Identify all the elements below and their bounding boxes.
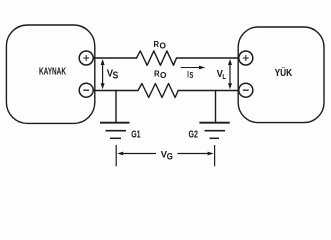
- svg-text:O: O: [160, 41, 167, 51]
- Is current arrow: [181, 66, 206, 70]
- wire top left: [94, 57, 137, 59]
- terminal + right: [239, 51, 253, 65]
- svg-text:YÜK: YÜK: [275, 66, 293, 79]
- terminal + left: [79, 51, 93, 65]
- svg-text:O: O: [160, 70, 167, 80]
- terminal - left: [79, 83, 93, 97]
- wire bottom right: [178, 90, 238, 92]
- resistor RO bottom: [138, 84, 178, 98]
- svg-text:KAYNAK: KAYNAK: [39, 67, 66, 78]
- svg-text:G2: G2: [189, 130, 199, 141]
- VG dimension: [116, 145, 214, 166]
- resistor RO top: [137, 51, 177, 65]
- load box YUK: [238, 27, 324, 123]
- svg-text:S: S: [113, 70, 119, 81]
- VS measurement arrow: [101, 59, 105, 89]
- svg-text:L: L: [222, 74, 226, 81]
- svg-text:G: G: [167, 151, 173, 162]
- terminal - right: [239, 83, 253, 97]
- wire down to G2: [215, 91, 217, 123]
- VL measurement arrow: [228, 59, 232, 89]
- ground G1: [100, 123, 130, 139]
- svg-text:G1: G1: [131, 130, 141, 141]
- wire top right: [177, 57, 239, 59]
- wire down to G1: [115, 91, 117, 123]
- wire bottom left: [94, 90, 139, 92]
- svg-text:S: S: [190, 70, 194, 80]
- source box KAYNAK: [6, 25, 94, 123]
- ground G2: [199, 123, 229, 139]
